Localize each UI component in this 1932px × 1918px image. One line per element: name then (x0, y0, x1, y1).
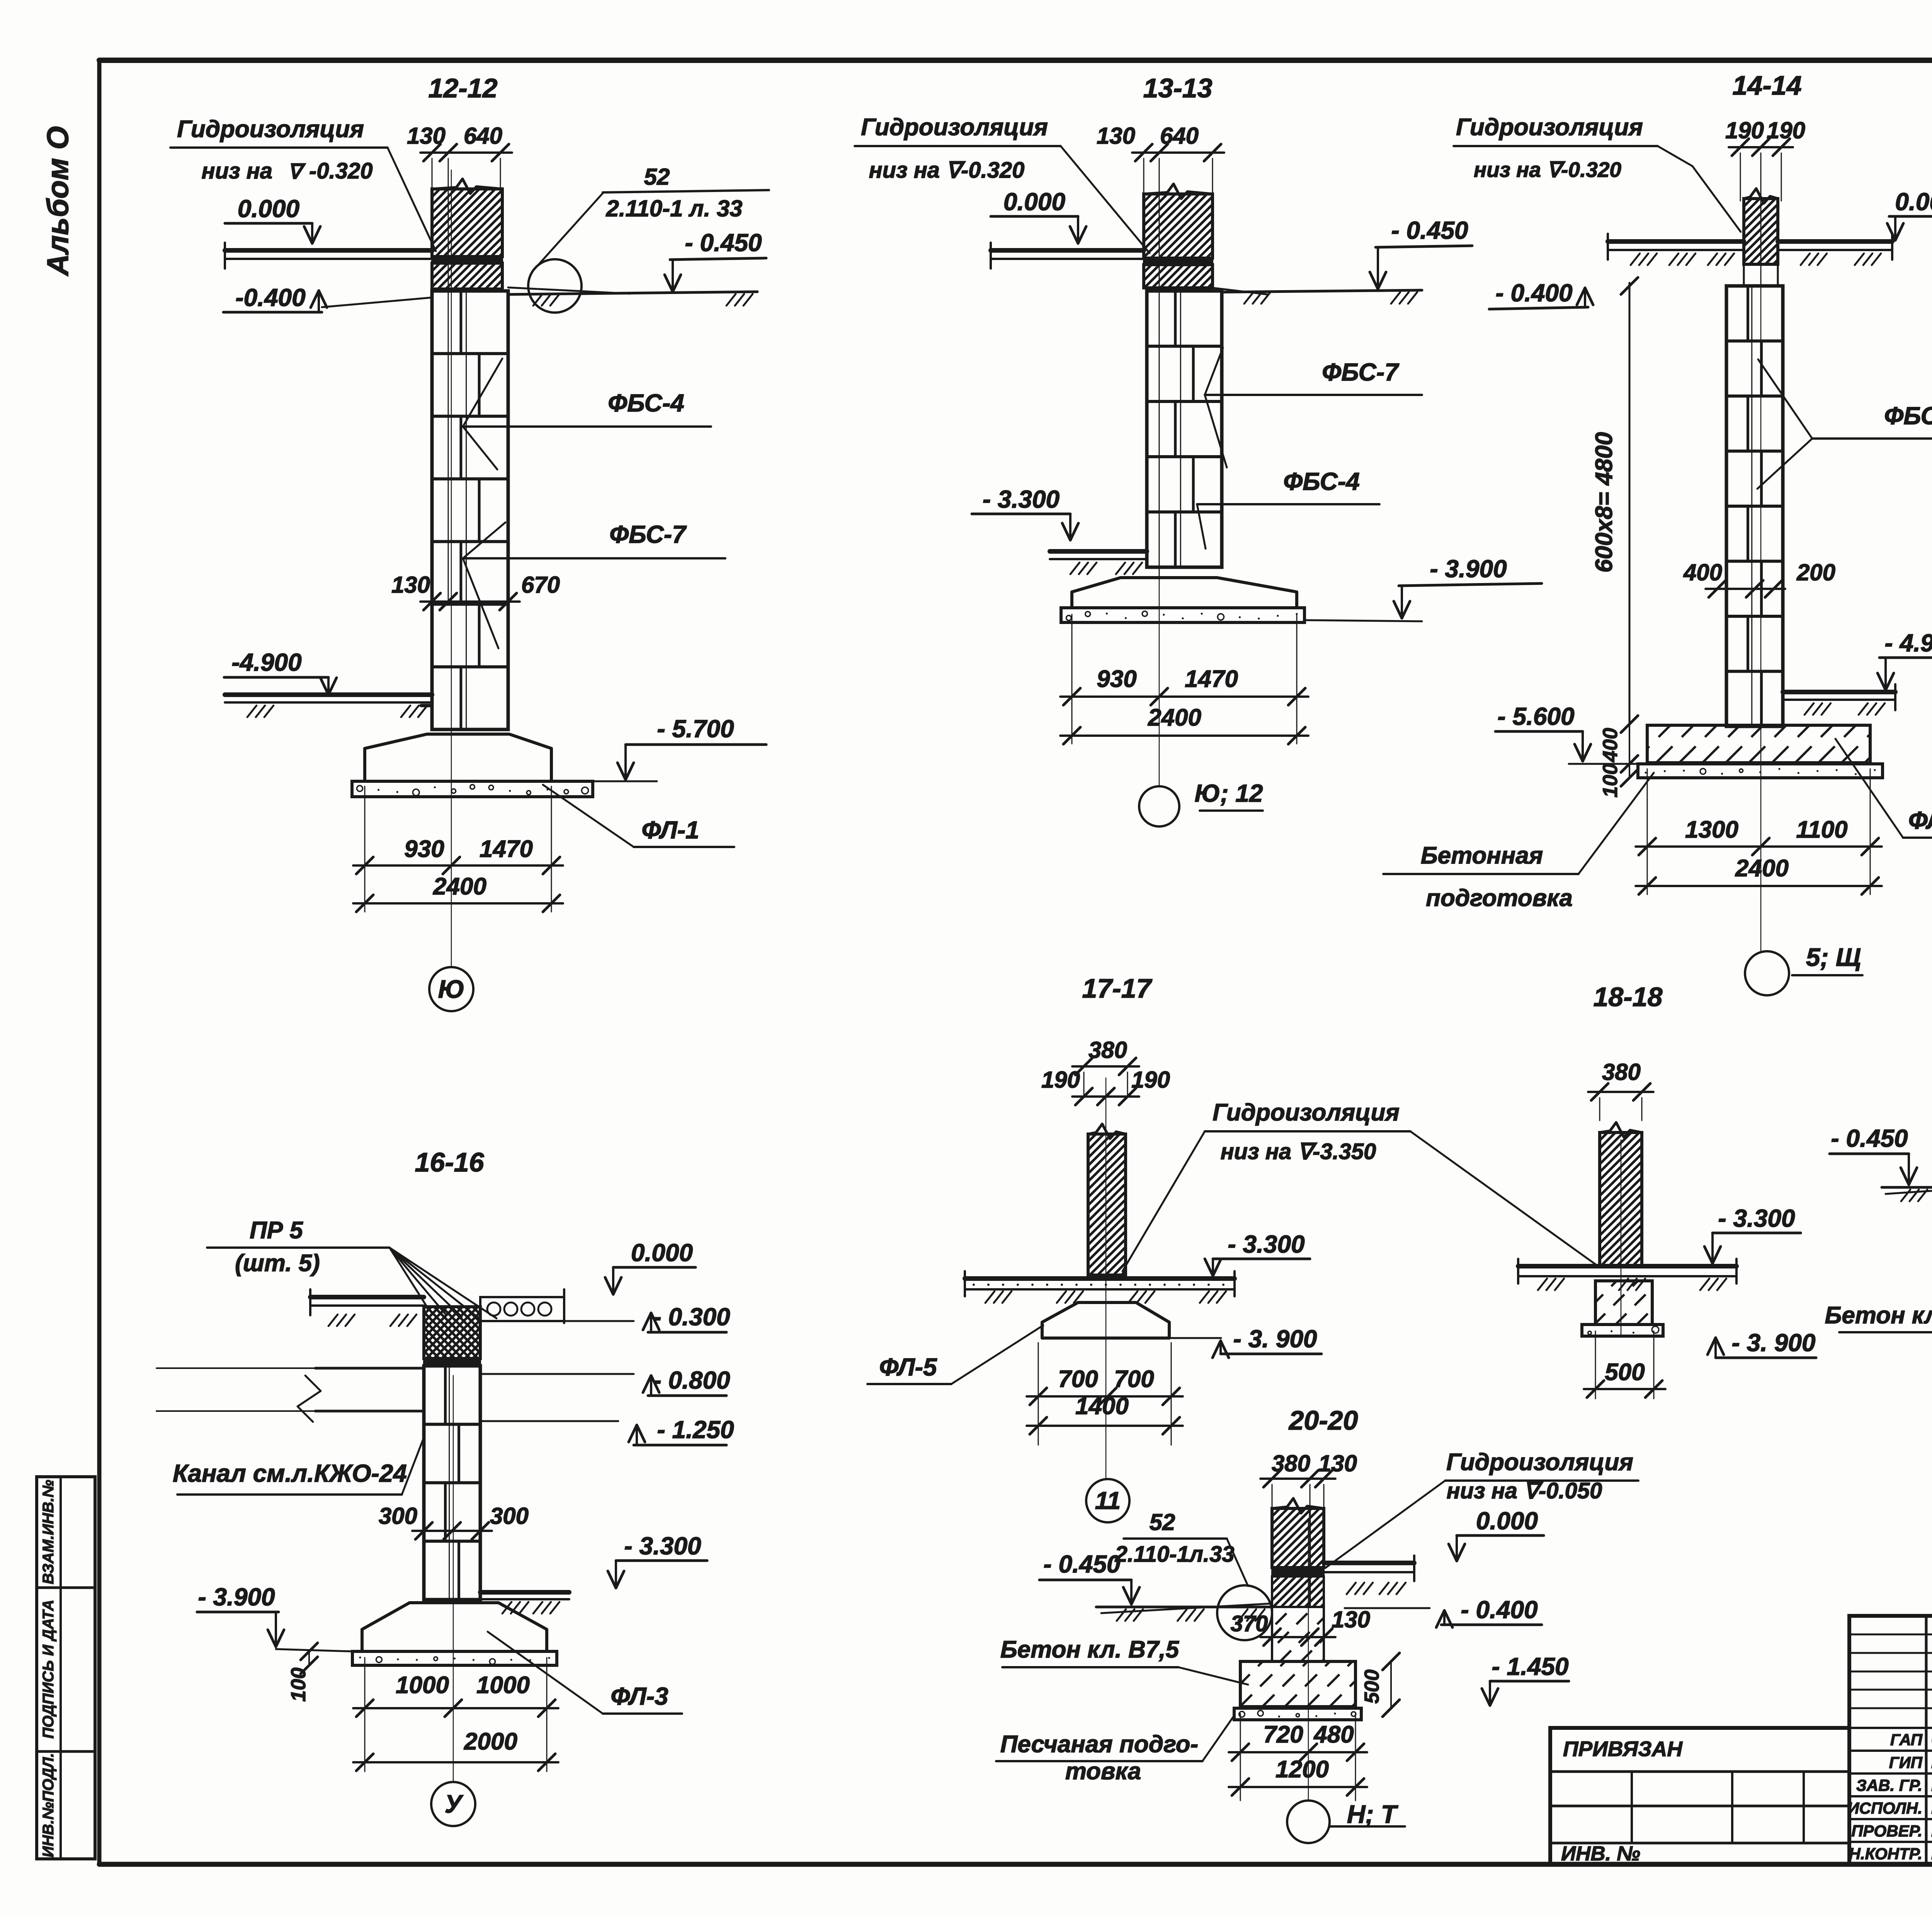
svg-text:52: 52 (644, 164, 670, 190)
floor slab -3.300 13-13 (1050, 551, 1147, 574)
level -1.250 16-16 (480, 1416, 734, 1445)
axis circle Yu (429, 967, 473, 1011)
dim 190 190 14-14 (1725, 117, 1805, 286)
section title 20-20 (1288, 1405, 1358, 1435)
label kanal 16-16 (173, 1437, 424, 1495)
svg-text:0.000: 0.000 (1003, 188, 1065, 216)
leader -0.400 12-12 (322, 298, 432, 307)
svg-text:низ на: низ на (202, 158, 272, 184)
label FL-5 (867, 1325, 1043, 1384)
svg-text:ИСПОЛН.: ИСПОЛН. (1847, 1799, 1922, 1817)
pedestal 18-18 (1552, 1281, 1702, 1325)
svg-text:1470: 1470 (1185, 666, 1238, 692)
footing FL-1 12-12 (365, 734, 551, 781)
svg-text:52: 52 (1150, 1509, 1175, 1535)
level -5.600 14-14 (1495, 702, 1638, 764)
level -3.900 16-16 (197, 1583, 352, 1651)
svg-text:У: У (445, 1789, 464, 1818)
svg-text:- 0.450: - 0.450 (1831, 1124, 1908, 1152)
svg-text:670: 670 (521, 572, 560, 598)
dim 2000 16-16 (353, 1728, 558, 1771)
svg-text:190: 190 (1131, 1067, 1170, 1093)
axis circle U (431, 1782, 475, 1826)
svg-text:Альбом О: Альбом О (41, 126, 75, 276)
svg-text:ГАП: ГАП (1890, 1731, 1923, 1749)
brick wall 14-14 (1678, 189, 1847, 286)
level -3.300 13-13 (972, 485, 1078, 540)
svg-text:- 0.400: - 0.400 (1461, 1596, 1537, 1624)
svg-text:ФЛ-5: ФЛ-5 (879, 1353, 937, 1381)
axis line 13-13 (1159, 166, 1160, 786)
svg-text:ФБС-1: ФБС-1 (1884, 402, 1932, 430)
hydro band 20-20 (1272, 1568, 1324, 1576)
svg-text:1400: 1400 (1075, 1393, 1129, 1420)
sidebar boxes (37, 1477, 95, 1859)
svg-text:Бетонная: Бетонная (1421, 842, 1543, 869)
svg-text:370: 370 (1231, 1611, 1268, 1636)
label beton 20-20 (1000, 1636, 1248, 1685)
svg-text:380: 380 (1602, 1059, 1641, 1085)
vert dim 100 16-16 (287, 1643, 318, 1702)
svg-text:Канал см.л.КЖО-24: Канал см.л.КЖО-24 (173, 1459, 407, 1487)
svg-text:- 3.900: - 3.900 (198, 1583, 275, 1611)
svg-text:ФЛ-1: ФЛ-1 (641, 816, 699, 844)
svg-text:- 3.300: - 3.300 (983, 485, 1060, 513)
svg-text:100: 100 (287, 1668, 310, 1702)
level -5.700 (593, 715, 766, 781)
level -0.450 13-13 (1370, 216, 1472, 289)
svg-text:640: 640 (464, 123, 502, 149)
svg-text:1000: 1000 (396, 1672, 449, 1699)
level -4.900 14-14 (1878, 629, 1932, 690)
svg-text:ВЗАМ.ИНВ.№: ВЗАМ.ИНВ.№ (40, 1480, 57, 1585)
label 52 2.110-1 l.33 (603, 164, 769, 221)
svg-text:Н; Т: Н; Т (1347, 1800, 1398, 1828)
svg-text:Гидроизоляция: Гидроизоляция (1213, 1099, 1400, 1126)
hydro band 16-16 (424, 1359, 480, 1366)
wall below hydro 20-20 (1242, 1576, 1359, 1607)
hollow core slab 16-16 (480, 1289, 564, 1323)
node circle 12-12 (528, 193, 603, 313)
svg-text:480: 480 (1313, 1721, 1354, 1748)
svg-text:13-13: 13-13 (1143, 73, 1212, 103)
dim 380 18-18 (1588, 1059, 1653, 1121)
svg-text:- 4.900: - 4.900 (1884, 629, 1932, 657)
hydro label 17-17 (1122, 1099, 1600, 1271)
svg-text:Бетон кл. В7,5: Бетон кл. В7,5 (1000, 1636, 1180, 1663)
svg-text:- 5.700: - 5.700 (657, 715, 734, 743)
label PR5 (207, 1217, 497, 1318)
svg-text:0.000: 0.000 (1895, 188, 1932, 216)
svg-text:- 1.250: - 1.250 (657, 1416, 734, 1444)
brick wall 12-12 (364, 179, 575, 289)
dim 500 18-18 (1584, 1331, 1665, 1399)
prep strip 16-16 (352, 1651, 557, 1665)
axis line 18-18 (1621, 1140, 1622, 1335)
svg-text:2000: 2000 (464, 1728, 517, 1755)
dim 130 640 13-13 (1097, 123, 1224, 580)
axis circle 5Sch (1745, 943, 1862, 995)
dim 130 670 mid (391, 572, 560, 610)
label FBS-4 13-13 (1197, 468, 1379, 549)
svg-text:- 0.450: - 0.450 (1391, 216, 1468, 244)
svg-text:низ на ∇-0.050: низ на ∇-0.050 (1447, 1478, 1602, 1503)
axis circle NT (1287, 1800, 1405, 1843)
svg-text:- 3.300: - 3.300 (1718, 1204, 1795, 1232)
svg-text:Ю: Ю (438, 974, 465, 1003)
svg-text:ГИП: ГИП (1889, 1753, 1923, 1772)
sig table rows (1847, 1728, 1932, 1863)
level -0.400 20-20 (1345, 1596, 1542, 1627)
label FL-1 (543, 785, 734, 847)
floor slab 20-20 (1324, 1556, 1414, 1594)
svg-text:ПРОВЕР.: ПРОВЕР. (1851, 1822, 1922, 1840)
svg-text:300: 300 (490, 1503, 529, 1529)
privyazan table (1550, 1728, 1849, 1864)
svg-text:14-14: 14-14 (1732, 70, 1801, 100)
svg-text:-0.320: -0.320 (309, 158, 372, 184)
level -0.450 20-20 (1039, 1550, 1139, 1604)
sidebar text inv (40, 1753, 57, 1857)
hydro label 12-12 (170, 116, 436, 251)
svg-text:720: 720 (1263, 1721, 1303, 1748)
svg-text:ФЛМ-1: ФЛМ-1 (1908, 806, 1932, 834)
svg-text:100: 100 (1599, 763, 1622, 797)
wall 18-18 (1466, 1122, 1782, 1266)
floor slab left 16-16 (310, 1289, 424, 1326)
dims 1300 1100 14-14 (1636, 769, 1882, 894)
hydro band 12-12 (432, 257, 502, 263)
svg-text:- 3.300: - 3.300 (624, 1532, 701, 1560)
axis circle Yu12 (1139, 779, 1263, 826)
brick wall 13-13 (1080, 184, 1279, 288)
axis circle 11 (1086, 1479, 1129, 1522)
level -0.400 14-14 (1489, 279, 1593, 309)
svg-text:- 0.450: - 0.450 (1043, 1550, 1120, 1578)
level -0.450 19-19 (1830, 1124, 1917, 1185)
dims 720 480 20-20 (1229, 1714, 1367, 1801)
footing FLM-1 14-14 (1610, 725, 1925, 763)
channel lines 16-16 (156, 1368, 424, 1422)
dim 2400 13-13 (1060, 704, 1308, 744)
svg-text:300: 300 (379, 1503, 417, 1529)
svg-text:700: 700 (1058, 1366, 1098, 1393)
svg-text:18-18: 18-18 (1593, 982, 1662, 1012)
axis line 14-14 (1760, 166, 1762, 951)
svg-text:2.110-1л.33: 2.110-1л.33 (1114, 1542, 1234, 1567)
dims 1000 1000 16-16 (353, 1658, 558, 1772)
hydro label 14-14 (1454, 114, 1741, 232)
svg-text:130: 130 (1332, 1607, 1370, 1632)
svg-text:- 5.600: - 5.600 (1497, 702, 1574, 730)
svg-text:- 0.300: - 0.300 (653, 1303, 730, 1331)
hydro label 20-20 (1325, 1449, 1638, 1568)
svg-text:190: 190 (1725, 117, 1764, 143)
level -3.300 17-17 (1205, 1230, 1310, 1276)
dims 930 1470 13-13 (1060, 614, 1308, 744)
axis line 12-12 (451, 170, 452, 967)
svg-text:- 3. 900: - 3. 900 (1233, 1325, 1317, 1353)
svg-text:Гидроизоляция: Гидроизоляция (1446, 1449, 1633, 1476)
level -0.400 12-12 (223, 284, 327, 312)
dim 2400 12-12 (353, 873, 563, 912)
level 0.000 14-14 (1887, 188, 1932, 240)
svg-text:Гидроизоляция: Гидроизоляция (177, 116, 364, 143)
svg-text:- 0.800: - 0.800 (653, 1366, 730, 1394)
svg-text:ФБС-4: ФБС-4 (608, 389, 684, 417)
svg-text:Н.КОНТР.: Н.КОНТР. (1849, 1845, 1922, 1863)
level -0.800 16-16 (480, 1366, 730, 1396)
dim 300 300 16-16 (379, 1503, 529, 1539)
label 52 20-20 (1114, 1509, 1248, 1586)
svg-text:-0.400: -0.400 (235, 284, 305, 311)
text inv no (1561, 1842, 1640, 1865)
svg-text:0.000: 0.000 (1476, 1507, 1538, 1535)
svg-text:930: 930 (1097, 666, 1136, 692)
block wall 13-13 (1147, 291, 1222, 567)
pedestal 20-20 (1218, 1607, 1397, 1661)
ground line 13-13 (1213, 288, 1422, 304)
svg-text:Бетон кл.В7,5: Бетон кл.В7,5 (1825, 1302, 1932, 1329)
footing 20-20 (1195, 1661, 1420, 1707)
floor slab 18-18 (1518, 1259, 1736, 1290)
floor slab 0.000 12-12 (225, 243, 432, 269)
wall 17-17 (947, 1124, 1270, 1275)
level -4.900 (224, 648, 337, 695)
axis line 16-16 (453, 1376, 454, 1782)
svg-text:- 3.300: - 3.300 (1228, 1230, 1304, 1258)
level -3.300 16-16 (608, 1532, 707, 1588)
svg-text:20-20: 20-20 (1288, 1405, 1358, 1435)
sig table frame (1849, 1616, 1932, 1864)
svg-text:1300: 1300 (1685, 816, 1738, 843)
svg-text:380: 380 (1088, 1037, 1127, 1063)
svg-text:ФБС-7: ФБС-7 (609, 520, 687, 548)
dim 130 640 top (407, 123, 512, 603)
level -3.900 17-17 (1169, 1325, 1321, 1358)
vert dim 600x8 14-14 (1591, 277, 1638, 733)
prep strip 12-12 (352, 781, 593, 797)
svg-text:- 1.450: - 1.450 (1492, 1653, 1568, 1680)
floor slab 17-17 (965, 1271, 1235, 1303)
svg-text:Песчаная подго-: Песчаная подго- (1000, 1731, 1198, 1758)
svg-text:400: 400 (1683, 559, 1722, 585)
sidebar text podpis (40, 1600, 57, 1739)
dim 1200 20-20 (1229, 1756, 1367, 1796)
footing 16-16 (362, 1603, 547, 1651)
axis line 17-17 (1105, 1078, 1107, 1479)
svg-text:930: 930 (404, 836, 444, 862)
section title 16-16 (415, 1147, 484, 1177)
svg-text:ПРИВЯЗАН: ПРИВЯЗАН (1563, 1737, 1683, 1761)
svg-text:700: 700 (1114, 1366, 1154, 1393)
svg-text:Гидроизоляция: Гидроизоляция (861, 114, 1048, 141)
dim 190 190 17-17 (1041, 1067, 1170, 1105)
label betonnaya podgotovka (1383, 773, 1654, 911)
svg-text:11: 11 (1095, 1487, 1121, 1515)
svg-text:ФЛ-3: ФЛ-3 (611, 1682, 668, 1710)
footing FL-5 17-17 (1042, 1302, 1169, 1338)
label FBS-7 13-13 (1205, 348, 1422, 468)
svg-text:0.000: 0.000 (238, 195, 299, 223)
level -0.450 12-12 (665, 229, 766, 292)
dim 2400 14-14 (1636, 855, 1882, 894)
svg-text:ПОДПИСЬ И ДАТА: ПОДПИСЬ И ДАТА (40, 1600, 57, 1739)
svg-text:2.110-1 л. 33: 2.110-1 л. 33 (605, 196, 742, 221)
svg-text:2400: 2400 (433, 873, 486, 900)
section title 17-17 (1082, 973, 1152, 1003)
level 0.000 16-16 (605, 1239, 696, 1294)
svg-text:- 3.900: - 3.900 (1430, 555, 1507, 583)
svg-text:Ю; 12: Ю; 12 (1195, 779, 1263, 807)
node circle 20-20 (1217, 1585, 1272, 1640)
svg-text:-4.900: -4.900 (231, 648, 301, 676)
ground line 20-20 (1096, 1603, 1272, 1621)
dim 380 17-17 (1072, 1037, 1139, 1097)
svg-text:низ на ∇-0.320: низ на ∇-0.320 (1474, 158, 1621, 182)
floor slab -4.900 (225, 695, 432, 717)
block wall 12-12 (432, 291, 508, 729)
section title 18-18 (1593, 982, 1662, 1012)
block wall 16-16 (424, 1366, 480, 1600)
svg-text:2400: 2400 (1148, 704, 1201, 731)
svg-text:2400: 2400 (1735, 855, 1789, 882)
dim 380 130 20-20 (1260, 1450, 1357, 1507)
svg-text:1000: 1000 (476, 1672, 530, 1699)
level -3.900 18-18 (1708, 1329, 1816, 1358)
dim 400 200 14-14 (1683, 559, 1835, 597)
svg-text:ИНВ. №: ИНВ. № (1561, 1842, 1640, 1865)
label FLM-1 (1835, 739, 1932, 838)
label FBS-7 (463, 520, 725, 648)
dims 700 700 17-17 (1027, 1343, 1183, 1445)
level -3.900 13-13 (1304, 555, 1542, 621)
floor slab 13-13 (991, 243, 1144, 269)
sig table empty rows (1849, 1634, 1932, 1708)
wall top hatch 16-16 (364, 1307, 540, 1359)
svg-text:130: 130 (1097, 123, 1135, 149)
level -3.300 18-18 (1704, 1204, 1801, 1263)
svg-text:400: 400 (1599, 728, 1622, 762)
dims 930 1470 12-12 (353, 786, 563, 912)
vert dim 500 20-20 (1361, 1653, 1400, 1717)
svg-text:подготовка: подготовка (1426, 885, 1573, 911)
level -0.300 16-16 (564, 1303, 730, 1332)
svg-text:190: 190 (1041, 1067, 1080, 1093)
svg-text:600x8= 4800: 600x8= 4800 (1591, 432, 1617, 573)
svg-text:16-16: 16-16 (415, 1147, 484, 1177)
svg-text:5; Щ: 5; Щ (1806, 943, 1861, 971)
prep strip 13-13 (1061, 608, 1304, 622)
hydro label 13-13 (855, 114, 1150, 253)
svg-text:- 0.450: - 0.450 (685, 229, 762, 257)
block wall 14-14 (1726, 286, 1783, 726)
svg-text:130: 130 (391, 572, 430, 598)
svg-text:Гидроизоляция: Гидроизоляция (1456, 114, 1643, 141)
prep strip 18-18 (1582, 1325, 1663, 1336)
svg-text:- 0.400: - 0.400 (1495, 279, 1572, 307)
svg-text:ЗАВ. ГР.: ЗАВ. ГР. (1856, 1776, 1922, 1794)
section title 12-12 (428, 73, 497, 103)
ground line 19-19 (1882, 1183, 1932, 1201)
svg-text:1100: 1100 (1796, 816, 1847, 843)
section title 13-13 (1143, 73, 1212, 103)
floor slab -4.900 14-14 (1783, 684, 1895, 715)
prep strip 20-20 (1234, 1708, 1361, 1720)
label FBS-1 14-14 (1757, 359, 1932, 489)
svg-text:ПР 5: ПР 5 (250, 1217, 303, 1244)
svg-text:190: 190 (1767, 117, 1805, 143)
label beton B7.5 19-19 (1825, 1291, 1932, 1332)
svg-text:17-17: 17-17 (1082, 973, 1152, 1003)
hydro band 13-13 (1144, 258, 1213, 265)
label FL-3 16-16 (488, 1632, 682, 1714)
svg-text:130: 130 (1318, 1450, 1357, 1476)
dim 1400 17-17 (1027, 1393, 1183, 1434)
level 0.000 20-20 (1449, 1507, 1544, 1561)
svg-text:500: 500 (1605, 1359, 1645, 1386)
svg-text:0.000: 0.000 (631, 1239, 693, 1267)
wall 20-20 (1213, 1498, 1391, 1607)
floor slab right 16-16 (480, 1592, 569, 1614)
svg-text:200: 200 (1796, 559, 1835, 585)
vert dims 400 100 14-14 (1599, 725, 1638, 797)
sidebar text vzam (40, 1480, 57, 1585)
svg-text:низ на ∇-0.320: низ на ∇-0.320 (869, 158, 1025, 183)
svg-text:1470: 1470 (480, 836, 533, 862)
svg-text:1200: 1200 (1276, 1756, 1329, 1783)
svg-text:500: 500 (1361, 1670, 1383, 1704)
level 0.000 12-12 (225, 195, 320, 243)
floor slabs 14-14 (1608, 234, 1892, 265)
ground line right 12-12 (508, 287, 757, 306)
text privyazan (1563, 1737, 1683, 1761)
level -1.450 20-20 (1482, 1653, 1569, 1705)
svg-text:- 3. 900: - 3. 900 (1731, 1329, 1815, 1357)
svg-text:12-12: 12-12 (428, 73, 497, 103)
section title 14-14 (1732, 70, 1801, 100)
svg-text:низ на ∇-3.350: низ на ∇-3.350 (1221, 1139, 1376, 1164)
svg-text:ФБС-7: ФБС-7 (1322, 358, 1400, 386)
prep strip 14-14 (1638, 764, 1883, 778)
footing 13-13 (1072, 578, 1297, 608)
axis line 20-20 (1308, 1518, 1309, 1801)
level 0.000 13-13 (991, 188, 1086, 243)
svg-text:(шт. 5): (шт. 5) (235, 1250, 320, 1277)
dim 370 130 20-20 (1231, 1607, 1370, 1646)
svg-text:ИНВ.№ПОДЛ.: ИНВ.№ПОДЛ. (40, 1753, 57, 1857)
album label (41, 126, 75, 276)
svg-text:ФБС-4: ФБС-4 (1283, 468, 1360, 495)
label peschanaya 20-20 (996, 1716, 1234, 1785)
label FBS-4 (463, 359, 711, 469)
